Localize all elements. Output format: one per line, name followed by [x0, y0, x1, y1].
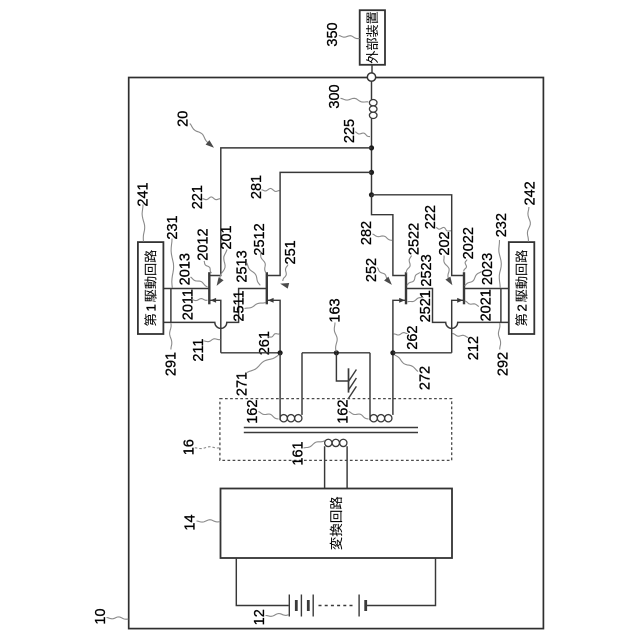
svg-text:16: 16 [181, 439, 197, 455]
svg-text:225: 225 [342, 119, 358, 143]
transistor 251 [267, 272, 274, 304]
svg-text:12: 12 [252, 609, 268, 625]
label 2522 [406, 223, 422, 273]
wire: left output rail [221, 352, 280, 354]
outer enclosure 10 [129, 78, 544, 629]
svg-text:2522: 2522 [407, 223, 423, 255]
svg-text:202: 202 [437, 231, 453, 255]
wire: converter to battery (right) [366, 558, 435, 606]
label 2513 [235, 250, 261, 285]
wire: Q251 base to drive circuit 1 (with crossover hop) [163, 289, 266, 329]
transistor 202 [457, 272, 464, 304]
svg-text:282: 282 [359, 221, 375, 245]
junction node: left rail [278, 350, 283, 355]
svg-text:2511: 2511 [232, 290, 248, 321]
label 300 [327, 84, 368, 108]
wire 271: rail down to primary coil [279, 353, 281, 420]
transformer unit boundary 16 (dashed) [220, 399, 452, 461]
transformer primary coil 162 (left) [280, 353, 302, 422]
label 261 [257, 331, 280, 355]
ground 163 symbol [336, 353, 356, 399]
label 232 [494, 213, 510, 287]
wire 281: to Q251 collector [267, 172, 372, 275]
label 282 [359, 221, 392, 245]
wire: right output rail [393, 352, 452, 354]
wire 225: main vertical from terminal [371, 148, 373, 195]
svg-text:2: 2 [514, 304, 529, 311]
label 2011 [181, 289, 208, 320]
label 211 [191, 339, 221, 362]
svg-text:2512: 2512 [252, 223, 268, 255]
secondary coil 161 [325, 439, 348, 488]
label 10 [93, 608, 128, 624]
label 251 (arrow to transistor) [280, 240, 299, 288]
svg-text:201: 201 [219, 225, 235, 249]
label 20 (arrow to node) [176, 111, 214, 148]
label 2013 [178, 253, 208, 287]
label 271 [235, 355, 279, 396]
svg-text:14: 14 [183, 514, 199, 530]
transistor 201 [209, 272, 216, 304]
wire 282: to Q252 collector [372, 195, 407, 276]
svg-text:211: 211 [191, 339, 207, 362]
svg-text:350: 350 [325, 22, 341, 46]
svg-text:221: 221 [190, 185, 206, 209]
label 231 [165, 215, 181, 288]
wire: link from base wire down (right) [500, 289, 502, 323]
label 2021 [465, 289, 495, 321]
wire 232: Q202 base to drive circuit 2 [464, 288, 509, 290]
svg-text:2022: 2022 [461, 227, 477, 259]
label 161 [291, 441, 325, 466]
label 2023 [465, 253, 496, 286]
wire 231: Q201 base to drive circuit 1 [163, 288, 209, 290]
label 162 (left) [245, 400, 278, 424]
svg-text:2023: 2023 [480, 253, 496, 285]
label 2511 [232, 290, 266, 321]
svg-text:261: 261 [257, 331, 273, 355]
junction node dot 3 [369, 192, 374, 197]
label 2022 [461, 227, 477, 271]
svg-text:1: 1 [143, 304, 158, 311]
inductor coil 300 [369, 81, 377, 148]
wire 262: Q252 emitter down [393, 300, 406, 353]
svg-text:281: 281 [249, 175, 265, 199]
label 350 [325, 22, 360, 46]
label 291 [164, 323, 180, 376]
wire: right center-tap lead [369, 353, 371, 420]
junction node dot 2 [369, 170, 374, 175]
label 241 [135, 182, 151, 241]
label 212 [452, 334, 482, 361]
svg-text:222: 222 [423, 205, 439, 229]
svg-text:241: 241 [135, 182, 151, 206]
wire: converter to battery (left) [236, 558, 288, 606]
svg-text:20: 20 [176, 111, 192, 127]
svg-text:272: 272 [418, 366, 434, 390]
second drive circuit box 242 [509, 242, 535, 334]
label 2512 [252, 223, 268, 273]
wire: external device to terminal [371, 65, 373, 73]
label 281 [249, 175, 280, 199]
wire 221: to Q201 collector [209, 148, 371, 276]
label 16 [181, 439, 219, 455]
label 2521 [408, 290, 435, 322]
label 202 (arrow to transistor) [437, 231, 453, 285]
conversion circuit box 14 [221, 489, 453, 559]
svg-text:242: 242 [523, 181, 539, 205]
svg-text:291: 291 [164, 352, 180, 376]
label 12 [252, 609, 289, 625]
svg-text:2013: 2013 [178, 253, 194, 285]
svg-text:271: 271 [235, 372, 251, 396]
svg-text:252: 252 [364, 258, 380, 282]
label 163 [328, 298, 344, 351]
svg-text:232: 232 [494, 213, 510, 237]
external device box 350 [360, 10, 385, 65]
label 221 [190, 185, 220, 209]
wire: link from base wire down (left) [170, 289, 172, 323]
transformer primary coil 162 (right) [370, 353, 393, 422]
svg-text:2021: 2021 [479, 289, 495, 321]
svg-text:10: 10 [93, 608, 109, 624]
svg-text:163: 163 [328, 298, 344, 322]
label 2012 [195, 228, 211, 273]
svg-text:212: 212 [466, 336, 482, 360]
transformer core [244, 428, 418, 433]
svg-text:2523: 2523 [419, 254, 435, 286]
svg-text:262: 262 [405, 325, 421, 349]
label 14 [183, 514, 220, 530]
svg-text:292: 292 [496, 352, 512, 376]
junction node: right rail [390, 350, 395, 355]
label 2523 [407, 254, 435, 286]
terminal circle [367, 73, 375, 81]
wire: Q252 base to drive circuit 2 (with crossover hop) [406, 289, 509, 329]
junction node: center tap [334, 350, 339, 355]
svg-text:2521: 2521 [418, 290, 434, 322]
wire 261: Q251 emitter down [267, 300, 280, 353]
label 242 [523, 181, 539, 241]
label 162 (right) [336, 400, 369, 424]
battery 12 [289, 595, 365, 617]
label 201 (arrow to transistor) [217, 225, 236, 286]
svg-text:2012: 2012 [195, 228, 211, 260]
wire: center tap rail 163 [302, 352, 370, 354]
junction node dot 1 [369, 145, 374, 150]
label 262 [393, 325, 421, 349]
label 225 [342, 119, 370, 143]
svg-text:161: 161 [291, 441, 307, 465]
label 272 [395, 355, 434, 390]
label 222 [423, 205, 451, 231]
svg-text:300: 300 [327, 84, 343, 108]
svg-text:2011: 2011 [181, 289, 197, 320]
transistor 252 [399, 272, 406, 304]
wire 222: to Q202 collector [372, 195, 465, 276]
label 292 [496, 323, 512, 376]
svg-text:251: 251 [283, 240, 299, 264]
wire 211: Q201 emitter down [209, 300, 221, 353]
first drive circuit box 241 [138, 242, 164, 334]
svg-text:231: 231 [165, 215, 181, 239]
label 252 (arrow to transistor) [364, 258, 392, 285]
wire 212: Q202 emitter down [452, 300, 464, 353]
